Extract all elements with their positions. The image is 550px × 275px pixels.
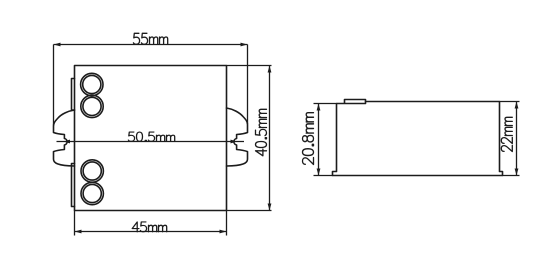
side view body — [333, 100, 503, 176]
dimension 22mm extension line top — [500, 101, 520, 103]
mounting clip right — [227, 108, 248, 166]
dimension 40.5mm extension line bottom — [227, 210, 272, 212]
terminal circle T1 outer — [81, 73, 103, 95]
terminal circle T3 outer — [81, 160, 103, 182]
dimension 22mm line — [516, 102, 518, 176]
terminal circle T2 inner — [83, 97, 101, 115]
arrowhead 50.5mm left — [63, 140, 70, 144]
cable entry tab lower left — [72, 164, 75, 207]
terminal circle T2 outer — [81, 95, 103, 117]
label 45mm — [132, 222, 167, 232]
arrowhead 55mm right — [241, 43, 248, 47]
label 20.8mm — [303, 113, 314, 165]
arrowhead 20.8mm top — [317, 104, 321, 111]
terminal circle T3 inner — [83, 162, 101, 180]
label 55mm — [133, 33, 167, 44]
dimension 22mm extension line bottom — [503, 175, 520, 177]
dimension 55mm extension line right — [247, 45, 249, 125]
arrowhead 40.5mm bottom — [268, 204, 272, 211]
dimension 45mm extension line right — [226, 211, 228, 236]
arrowhead 22mm bottom — [515, 169, 519, 176]
arrowhead 40.5mm top — [268, 66, 272, 73]
dimension 50.5mm line — [57, 141, 245, 143]
dimension 40.5mm line — [269, 66, 271, 211]
dimension 45mm extension line left — [74, 211, 76, 236]
arrowhead 50.5mm right — [231, 140, 238, 144]
body outline top view — [75, 66, 227, 211]
arrowhead 45mm right — [220, 230, 227, 234]
dimension 20.8mm extension line top — [314, 103, 337, 105]
terminal circle T4 outer — [81, 182, 103, 204]
label 40.5mm — [256, 109, 267, 156]
dimension 45mm line — [75, 231, 227, 233]
label 50.5mm — [128, 132, 174, 141]
arrowhead 45mm left — [75, 230, 82, 234]
dimension 40.5mm extension line top — [227, 65, 272, 67]
dimension 20.8mm line — [318, 104, 320, 176]
dimension 55mm line — [54, 44, 248, 46]
arrowhead 55mm left — [54, 43, 61, 47]
arrowhead 20.8mm bottom — [317, 169, 321, 176]
mounting clip left — [54, 110, 75, 166]
cable entry tab upper left — [72, 79, 75, 111]
dimension 55mm extension line left — [53, 45, 55, 126]
terminal circle T4 inner — [83, 184, 101, 202]
label 22mm — [501, 117, 512, 151]
arrowhead 22mm top — [515, 102, 519, 109]
side view top terminal ridge — [345, 100, 366, 104]
terminal circle T1 inner — [83, 75, 101, 93]
dimension 20.8mm extension line bottom — [314, 175, 333, 177]
